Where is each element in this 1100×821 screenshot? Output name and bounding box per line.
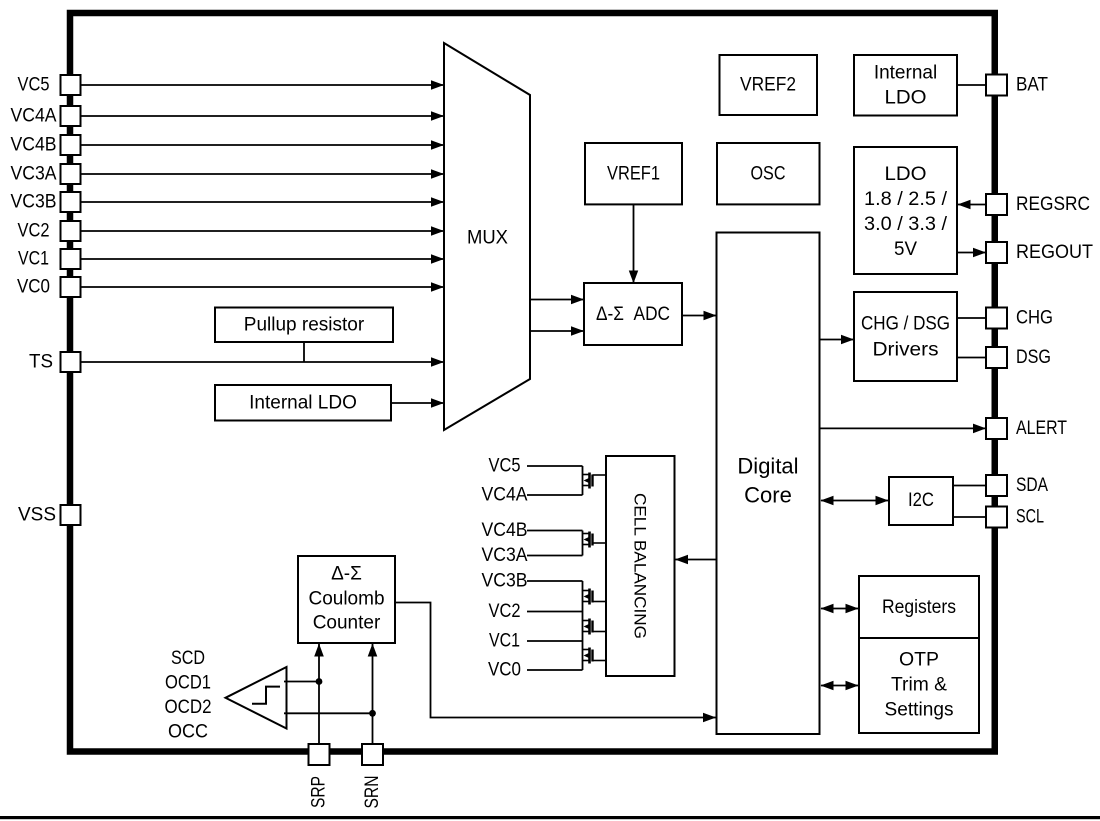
pin SDA [986,475,1048,496]
svg-text:VC0: VC0 [17,277,50,298]
pin SRN [362,744,383,809]
pin DSG [986,347,1051,368]
programmable LDO 1.8/2.5/3.0/3.3/5V [854,147,957,274]
svg-text:SCD: SCD [171,648,205,669]
wire TS to MUX [81,361,444,363]
IC boundary frame [70,13,995,752]
label SCD OCD1 OCD2 OCC [165,648,212,743]
pin VC0 [17,277,81,298]
wire internal LDO to MUX [391,402,444,404]
wire REGSRC to LDO [958,204,986,206]
svg-text:5V: 5V [894,239,917,260]
wire VC2 to MUX [81,230,444,232]
node VC3A (cell balancing input) [482,545,583,566]
node VC4A (cell balancing input) [482,485,583,506]
svg-text:Internal: Internal [874,63,937,84]
node VC0 (cell balancing input) [488,660,583,681]
pin VC5 [18,75,81,96]
svg-text:VC4B: VC4B [482,520,528,541]
digital core block [717,233,820,735]
wire MUX to ADC (channel 2) [530,330,584,332]
svg-text:VC3B: VC3B [482,571,528,592]
wire I2C to SDA pin [953,485,986,487]
svg-text:DSG: DSG [1016,347,1051,368]
svg-text:CHG: CHG [1016,308,1053,329]
junction SRP/comparator [316,678,323,685]
transistor switch Q2 (VC4B/VC3A) [583,532,607,548]
wire VC3B to MUX [81,201,444,203]
svg-text:VREF2: VREF2 [740,75,796,96]
svg-text:Δ-Σ ADC: Δ-Σ ADC [596,304,670,325]
pin VC3B [11,192,81,213]
wire SRN to coulomb counter [372,644,374,745]
pin VC2 [18,221,81,242]
wire internal LDO to BAT pin [957,84,986,86]
pin VSS [18,505,81,526]
svg-text:REGOUT: REGOUT [1016,242,1093,263]
svg-text:Drivers: Drivers [873,340,939,361]
svg-text:VSS: VSS [18,505,56,526]
pin REGSRC [986,194,1090,215]
svg-text:VC3B: VC3B [11,192,57,213]
CHG / DSG drivers block [854,292,957,381]
pin SRP [309,744,330,808]
pin VC3A [11,164,81,185]
wire digital core to registers (bidirectional) [821,608,858,610]
svg-text:MUX: MUX [467,228,508,249]
pin BAT [986,75,1048,96]
svg-text:I2C: I2C [908,490,934,511]
wire digital core to drivers [820,339,854,341]
wire VREF1 to ADC [633,204,635,282]
wire MUX to ADC (channel 1) [530,299,584,301]
svg-text:VC5: VC5 [489,456,521,477]
internal LDO block (TS supply) [215,385,391,421]
pin VC4A [11,106,81,127]
wire bus VC5/VC4A [582,466,584,495]
svg-text:3.0 / 3.3 /: 3.0 / 3.3 / [864,214,948,235]
pin SCL [986,507,1044,528]
svg-text:VC3A: VC3A [482,545,528,566]
protection comparator (SCD/OCD/OCC) [226,667,287,729]
svg-text:Digital: Digital [737,454,798,479]
svg-text:Counter: Counter [313,613,381,634]
svg-text:Registers: Registers [882,597,956,618]
svg-text:VC2: VC2 [489,601,521,622]
wire digital core to I2C (bidirectional) [821,500,888,502]
delta-sigma coulomb counter [298,556,395,643]
svg-text:Δ-Σ: Δ-Σ [331,564,362,585]
pin ALERT [986,418,1067,439]
registers block [859,576,979,638]
svg-text:BAT: BAT [1016,75,1048,96]
voltage reference VREF2 [720,55,818,115]
wire drivers to DSG pin [957,357,986,359]
node VC4B (cell balancing input) [482,520,583,541]
svg-text:TS: TS [29,352,53,373]
voltage reference VREF1 [585,143,682,204]
pullup resistor block [215,308,393,343]
wire VC4A to MUX [81,115,444,117]
cell balancing block [606,456,675,676]
svg-text:VC4B: VC4B [11,135,57,156]
transistor switch Q5 (VC1/VC0) [583,648,607,664]
svg-text:VC4A: VC4A [11,106,57,127]
svg-text:CHG / DSG: CHG / DSG [861,314,950,335]
transistor switch Q1 (VC5/VC4A) [583,473,607,489]
internal LDO block (BAT supply) [854,55,957,116]
svg-text:OCD2: OCD2 [165,697,212,718]
svg-text:LDO: LDO [885,164,927,185]
wire digital core to OTP (bidirectional) [821,685,858,687]
svg-text:VC3A: VC3A [11,164,57,185]
wire bus VC4B/VC3A [582,531,584,556]
svg-text:OSC: OSC [751,164,786,185]
node VC3B (cell balancing input) [482,571,583,592]
pin REGOUT [986,242,1093,263]
wire VC1 to MUX [81,258,444,260]
svg-text:SCL: SCL [1016,507,1044,528]
svg-text:Coulomb: Coulomb [308,589,384,610]
node VC1 (cell balancing input) [489,631,583,652]
svg-text:VREF1: VREF1 [607,164,660,185]
pin TS [29,352,81,373]
wire VC5 to MUX [81,84,444,86]
svg-text:VC1: VC1 [489,631,520,652]
svg-text:OCD1: OCD1 [165,673,211,694]
svg-text:Trim &: Trim & [891,675,947,696]
svg-text:VC2: VC2 [18,221,50,242]
OTP trim and settings block [859,638,979,733]
svg-text:ALERT: ALERT [1016,418,1067,439]
wire LDO to REGOUT [957,252,986,254]
wire comparator input to SRN net [284,712,373,714]
wire SRP to coulomb counter [318,644,320,745]
junction SRN/comparator [369,710,376,717]
svg-text:Core: Core [744,483,792,508]
analog multiplexer MUX [444,43,530,430]
I2C interface block [889,477,953,525]
svg-text:VC4A: VC4A [482,485,528,506]
oscillator OSC [717,143,820,204]
wire pullup resistor to TS net [303,342,305,362]
transistor switch Q4 (VC2/VC1) [583,619,607,635]
svg-text:Pullup resistor: Pullup resistor [244,315,365,336]
transistor switch Q3 (VC3B/VC2) [583,589,607,605]
svg-text:SRP: SRP [309,776,330,808]
svg-text:LDO: LDO [885,88,927,109]
pin CHG [986,308,1053,329]
svg-text:VC0: VC0 [488,660,521,681]
svg-text:VC1: VC1 [18,249,49,270]
svg-text:OTP: OTP [899,650,939,671]
svg-text:CELL BALANCING: CELL BALANCING [631,493,650,639]
svg-text:SRN: SRN [362,776,383,809]
wire ADC to digital core [682,315,716,317]
pin VC1 [18,249,81,270]
wire comparator input to SRP net [284,681,319,683]
wire VC0 to MUX [81,286,444,288]
svg-text:REGSRC: REGSRC [1016,194,1090,215]
wire drivers to CHG pin [957,317,986,319]
wire VC3A to MUX [81,173,444,175]
wire I2C to SCL pin [953,516,986,518]
pin VC4B [11,135,81,156]
node VC2 (cell balancing input) [489,601,583,622]
svg-text:VC5: VC5 [18,75,50,96]
delta-sigma ADC [584,283,682,345]
wire bus VC3B to VC0 [582,581,584,670]
wire digital core to cell balancing [676,559,717,561]
node VC5 (cell balancing input) [489,456,583,477]
wire VC4B to MUX [81,144,444,146]
wire digital core to ALERT pin [820,427,986,429]
svg-text:SDA: SDA [1016,475,1048,496]
svg-text:Internal LDO: Internal LDO [249,393,357,414]
svg-text:Settings: Settings [885,700,954,721]
wire coulomb counter to digital core [395,603,716,718]
svg-text:1.8 / 2.5 /: 1.8 / 2.5 / [864,189,948,210]
svg-text:OCC: OCC [168,722,208,743]
